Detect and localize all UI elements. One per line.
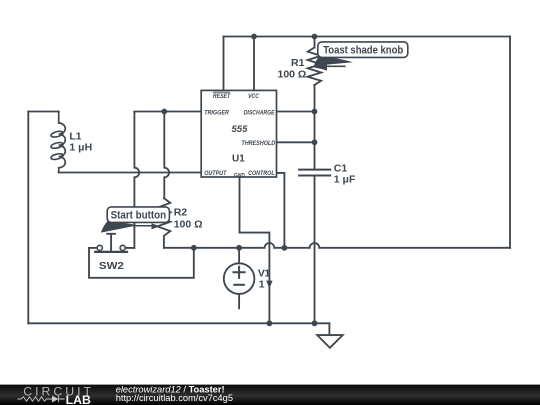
wire bottom rail bbox=[28, 322, 329, 324]
callout Toast shade knob bbox=[318, 42, 408, 58]
junction V1 plus / mid net bbox=[236, 245, 242, 251]
svg-text:R2: R2 bbox=[174, 207, 188, 219]
svg-text:100 Ω: 100 Ω bbox=[174, 219, 203, 231]
wire DISCHARGE bbox=[277, 111, 315, 113]
svg-text:100 Ω: 100 Ω bbox=[278, 69, 307, 81]
svg-text:DISCHARGE: DISCHARGE bbox=[244, 109, 275, 116]
source V1 bottom lead bbox=[238, 294, 240, 308]
svg-text:SW2: SW2 bbox=[99, 260, 124, 272]
svg-text:THRESHOLD: THRESHOLD bbox=[241, 140, 275, 147]
resistor R1 wiper arrow bbox=[315, 62, 346, 70]
wire R1 top lead bbox=[314, 37, 316, 48]
RESET overline bbox=[213, 91, 230, 93]
svg-text:OUTPUT: OUTPUT bbox=[204, 170, 227, 177]
svg-text:555: 555 bbox=[232, 124, 249, 135]
resistor R2 wiper arrow bbox=[135, 223, 160, 229]
IC U1 555 timer body bbox=[201, 90, 276, 177]
wire R1 to discharge/threshold/C1 bbox=[314, 85, 316, 169]
wire left rail bbox=[27, 112, 29, 324]
wire right rail bbox=[509, 37, 511, 248]
switch SW2 contact circles bbox=[97, 245, 125, 250]
wire C1 bottom to ground rail bbox=[314, 176, 316, 324]
svg-text:TRIGGER: TRIGGER bbox=[204, 109, 229, 116]
junction GND path / bottom rail bbox=[267, 320, 273, 326]
switch SW2 left stub bbox=[89, 247, 97, 249]
junction DISCHARGE / R1 bottom bbox=[312, 109, 318, 115]
wire THRESHOLD bbox=[277, 141, 315, 143]
wire L1 top bbox=[28, 111, 58, 113]
resistor R1 zigzag bbox=[308, 48, 321, 86]
callout Start button bbox=[107, 207, 169, 223]
V1 current arrow bbox=[266, 281, 272, 289]
callout Start button tail bbox=[101, 220, 138, 232]
source V1 plus sign bbox=[234, 267, 245, 278]
wire CONTROL bbox=[277, 173, 285, 248]
ground stub bbox=[328, 323, 330, 335]
footer logo schematic line (resistor + diode) bbox=[18, 396, 65, 403]
svg-text:LAB: LAB bbox=[66, 393, 92, 405]
footer logo diode triangle bbox=[52, 396, 59, 403]
svg-text:R1: R1 bbox=[291, 57, 305, 69]
wire VCC lead bbox=[253, 37, 255, 91]
wire GND pin path bbox=[240, 177, 270, 323]
wire RESET lead bbox=[223, 37, 225, 91]
switch SW2 stem bbox=[107, 234, 115, 251]
wire TRIGGER net: IC left to x134.4, down (hop over OUTPUT), to SW2 right terminal bbox=[125, 112, 201, 248]
wire net y=247.8 (R2 bottom to right rail, hops at 269.4 and 314.5) bbox=[164, 243, 510, 248]
source V1 minus sign bbox=[234, 284, 244, 286]
wire OUTPUT (L1 bottom to IC) bbox=[59, 172, 202, 174]
junction SW2 left path / mid net bbox=[191, 245, 197, 251]
svg-text:CONTROL: CONTROL bbox=[248, 170, 275, 177]
junction CONTROL / mid net bbox=[282, 245, 288, 251]
footer bar bbox=[0, 385, 540, 405]
callout Toast shade knob tail bbox=[314, 56, 354, 71]
wire top rail bbox=[224, 36, 511, 38]
svg-text:1 μF: 1 μF bbox=[334, 174, 356, 186]
wire SW2 left U-path bbox=[89, 248, 194, 278]
switch SW2 bar bbox=[95, 251, 127, 253]
svg-text:GND: GND bbox=[234, 172, 245, 179]
svg-text:VCC: VCC bbox=[248, 93, 259, 100]
svg-text:Start button: Start button bbox=[111, 210, 167, 222]
junction THRESHOLD / C1 column bbox=[312, 139, 318, 145]
capacitor C1 plates bbox=[299, 170, 330, 176]
junction TRIGGER / R2 branch bbox=[161, 109, 167, 115]
ground triangle bbox=[317, 335, 343, 348]
svg-text:U1: U1 bbox=[232, 154, 245, 165]
wire TRIGGER branch down to R2 (hop over OUTPUT) bbox=[164, 112, 169, 199]
svg-text:http://circuitlab.com/cv7c4g5: http://circuitlab.com/cv7c4g5 bbox=[116, 393, 233, 403]
svg-text:RESET: RESET bbox=[213, 93, 231, 100]
inductor L1 bbox=[59, 112, 66, 173]
junction C1 bottom / bottom rail bbox=[312, 320, 318, 326]
junction R1 top / top rail bbox=[312, 34, 318, 40]
svg-text:1 μH: 1 μH bbox=[69, 141, 92, 153]
resistor R2 zigzag bbox=[157, 198, 170, 248]
junction VCC / top rail bbox=[251, 34, 257, 40]
source V1 circle bbox=[224, 263, 255, 294]
svg-text:Toast shade knob: Toast shade knob bbox=[323, 45, 403, 57]
svg-text:1: 1 bbox=[259, 278, 265, 290]
source V1 top lead bbox=[238, 248, 240, 263]
